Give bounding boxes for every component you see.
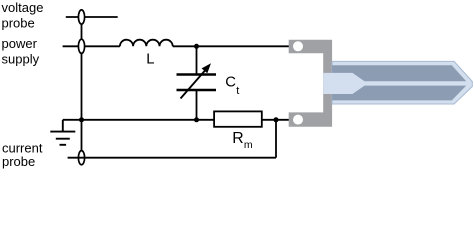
node: bus to ground rail — [79, 117, 84, 122]
svg-text:current: current — [2, 140, 43, 155]
sensor electrode upper (dark) — [332, 65, 466, 81]
sensor electrode lower (dark) — [332, 86, 466, 101]
sensor holder bracket — [289, 40, 332, 127]
label: voltage probe — [2, 0, 44, 30]
connector feedthrough: voltage probe — [78, 10, 84, 24]
wire: vertical bus — [81, 17, 83, 158]
wire: voltage probe stub — [66, 16, 118, 18]
svg-text:supply: supply — [2, 51, 40, 66]
sensor electrode gap wedge — [323, 73, 364, 94]
svg-text:R: R — [232, 130, 243, 147]
svg-text:power: power — [2, 36, 38, 51]
node: junction top of capacitor branch — [194, 44, 199, 49]
wire: current branch vertical — [275, 120, 277, 158]
wire: power supply lead left — [63, 45, 120, 47]
svg-text:probe: probe — [2, 154, 35, 169]
wire: resistor to sensor lower contact — [262, 119, 290, 121]
connector feedthrough: power supply — [78, 39, 84, 53]
wire: capacitor top lead — [196, 46, 198, 73]
svg-text:probe: probe — [2, 15, 35, 30]
sensor blade (quartz resonator body) — [332, 61, 472, 104]
holder hole bottom — [293, 115, 303, 125]
inductor L — [120, 40, 173, 47]
capacitor Ct (variable) — [177, 73, 217, 76]
node: capacitor bottom junction — [194, 117, 199, 122]
svg-text:voltage: voltage — [2, 0, 44, 15]
holder hole top — [293, 41, 303, 51]
wire: ground rail to resistor — [63, 119, 214, 121]
ground — [50, 120, 75, 145]
svg-text:m: m — [244, 139, 253, 151]
wire: capacitor bottom lead — [196, 91, 198, 120]
node: junction current branch — [274, 117, 279, 122]
svg-text:C: C — [225, 75, 236, 91]
label: current probe — [2, 140, 43, 169]
wire: current probe line — [68, 157, 276, 159]
svg-text:t: t — [236, 85, 239, 97]
wire: power supply lead right to sensor — [173, 45, 290, 47]
resistor Rm — [214, 111, 262, 126]
label: power supply — [2, 36, 40, 66]
svg-text:L: L — [146, 52, 154, 68]
connector feedthrough: current probe — [78, 151, 84, 165]
